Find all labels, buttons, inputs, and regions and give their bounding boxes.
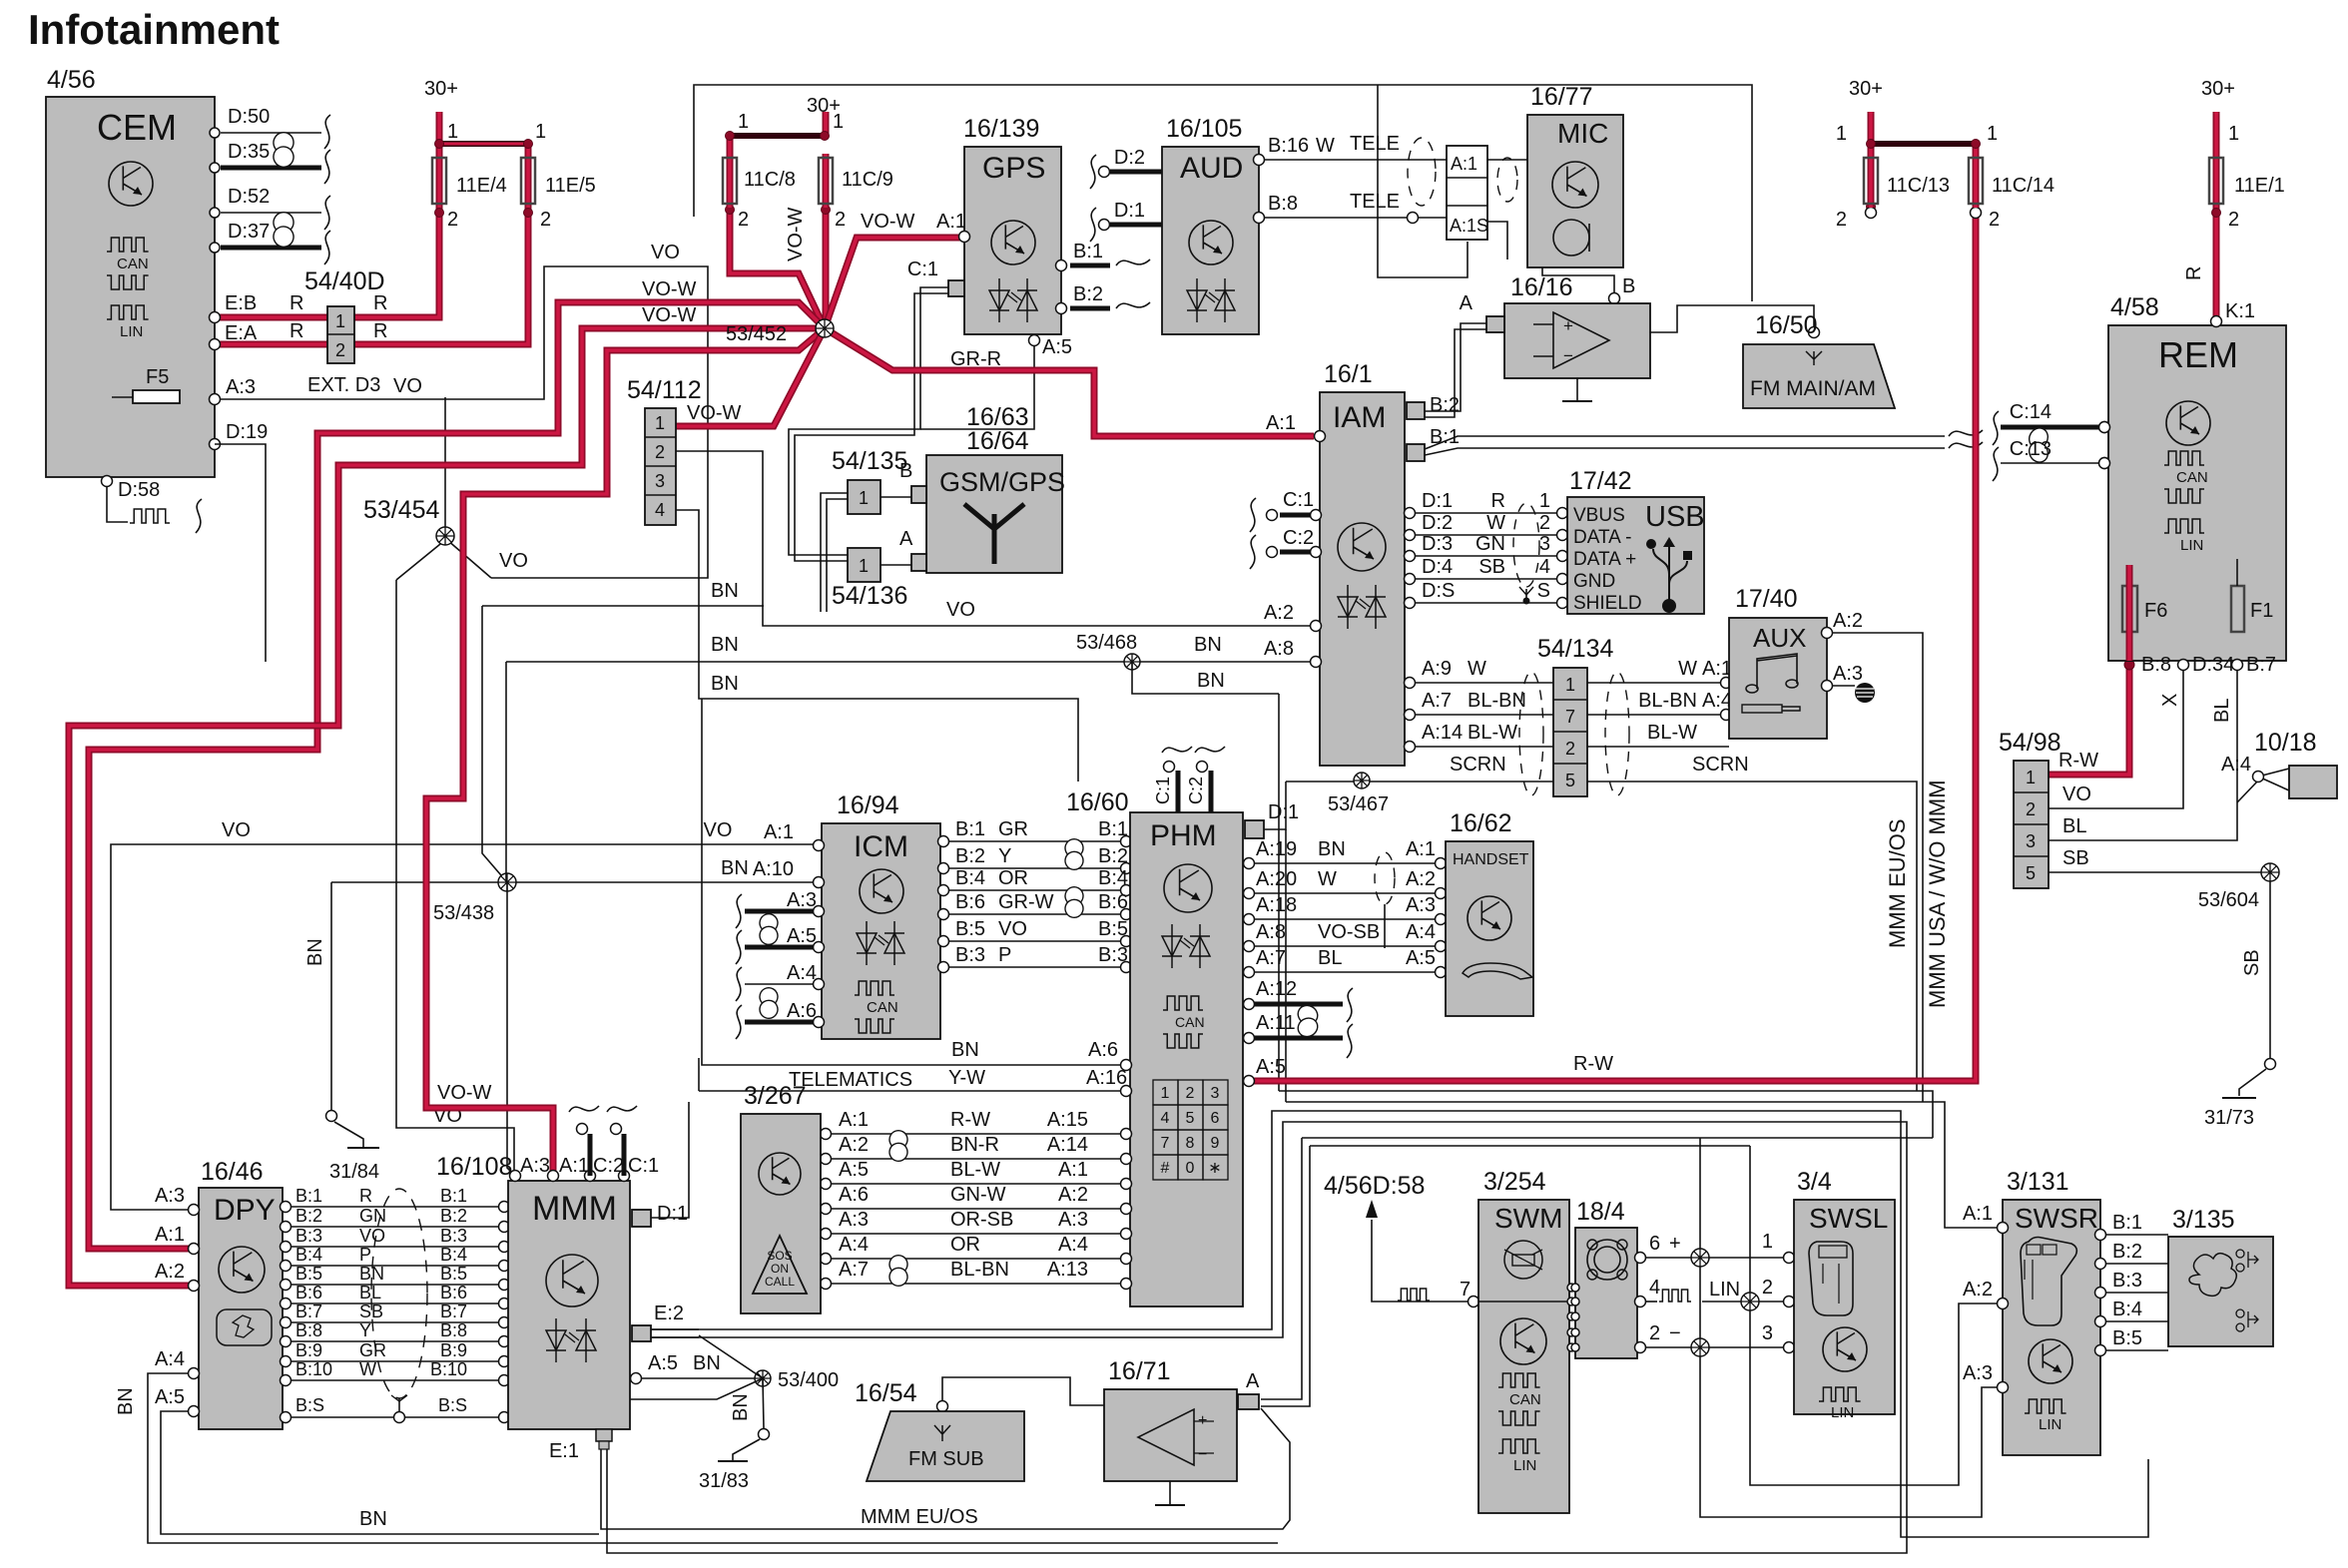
- svg-text:11E/4: 11E/4: [456, 175, 507, 197]
- svg-text:53/468: 53/468: [1076, 632, 1137, 654]
- svg-text:B:2: B:2: [2112, 1241, 2142, 1263]
- svg-text:A:19: A:19: [1256, 838, 1297, 860]
- svg-text:A:6: A:6: [839, 1184, 869, 1206]
- svg-text:BN: BN: [711, 673, 739, 695]
- svg-text:B:1: B:1: [1073, 241, 1103, 262]
- svg-text:A:1: A:1: [1702, 658, 1732, 680]
- svg-text:2: 2: [2228, 209, 2239, 231]
- svg-text:R-W: R-W: [950, 1109, 990, 1131]
- svg-text:A:5: A:5: [155, 1386, 185, 1408]
- svg-text:54/40D: 54/40D: [304, 267, 385, 295]
- svg-text:A:2: A:2: [1833, 610, 1863, 632]
- svg-text:16/50: 16/50: [1755, 311, 1818, 339]
- svg-text:A:14: A:14: [1422, 722, 1463, 744]
- svg-text:GPS: GPS: [982, 152, 1045, 185]
- svg-text:Y-W: Y-W: [948, 1067, 985, 1089]
- svg-text:VO-W: VO-W: [642, 304, 697, 326]
- svg-text:F6: F6: [2144, 600, 2167, 622]
- svg-text:CAN: CAN: [867, 999, 898, 1016]
- svg-text:3: 3: [1211, 1085, 1220, 1102]
- svg-text:VO-W: VO-W: [861, 211, 915, 233]
- svg-text:LIN: LIN: [1831, 1404, 1854, 1421]
- svg-text:A:2: A:2: [1058, 1184, 1088, 1206]
- svg-text:B:3: B:3: [295, 1226, 322, 1246]
- svg-text:GN: GN: [359, 1206, 386, 1226]
- svg-text:DPY: DPY: [214, 1194, 276, 1227]
- svg-text:16/60: 16/60: [1066, 788, 1129, 816]
- svg-text:A:16: A:16: [1086, 1067, 1127, 1089]
- svg-text:B:S: B:S: [438, 1395, 467, 1415]
- svg-text:11C/9: 11C/9: [842, 169, 893, 191]
- svg-text:1: 1: [1161, 1085, 1170, 1102]
- svg-text:31/84: 31/84: [329, 1161, 379, 1183]
- svg-text:3: 3: [655, 471, 665, 491]
- svg-text:VO: VO: [222, 819, 251, 841]
- svg-text:A:4: A:4: [787, 962, 817, 984]
- svg-text:B:4: B:4: [955, 867, 985, 889]
- svg-text:A:1: A:1: [764, 821, 794, 843]
- svg-text:B:1: B:1: [440, 1186, 467, 1206]
- svg-text:BN: BN: [721, 857, 749, 879]
- svg-text:MMM USA / W/O MMM: MMM USA / W/O MMM: [1925, 780, 1950, 1008]
- svg-text:LIN: LIN: [1709, 1279, 1740, 1301]
- svg-text:AUX: AUX: [1753, 623, 1806, 653]
- svg-text:4/58: 4/58: [2110, 293, 2159, 321]
- svg-text:B:1: B:1: [1430, 426, 1460, 448]
- svg-text:54/136: 54/136: [832, 582, 907, 610]
- svg-text:11C/13: 11C/13: [1887, 175, 1950, 197]
- svg-text:VO: VO: [998, 918, 1027, 940]
- svg-text:D:3: D:3: [1422, 533, 1453, 555]
- svg-text:BL: BL: [359, 1283, 381, 1303]
- svg-text:BL-BN: BL-BN: [1467, 690, 1526, 712]
- svg-text:A:3: A:3: [1406, 894, 1436, 916]
- svg-text:LIN: LIN: [120, 323, 143, 340]
- svg-text:1: 1: [447, 121, 458, 143]
- svg-text:R: R: [290, 320, 303, 342]
- svg-text:Y: Y: [359, 1320, 371, 1340]
- svg-text:A:1: A:1: [1266, 412, 1296, 434]
- svg-text:GND: GND: [1573, 571, 1615, 592]
- svg-text:C:13: C:13: [2010, 438, 2052, 460]
- svg-text:A:4: A:4: [1702, 690, 1732, 712]
- svg-text:1: 1: [1565, 675, 1575, 695]
- svg-text:A:7: A:7: [1422, 690, 1452, 712]
- svg-text:11E/1: 11E/1: [2234, 175, 2285, 197]
- svg-text:VO-W: VO-W: [785, 207, 807, 261]
- svg-text:Infotainment: Infotainment: [28, 6, 280, 53]
- svg-text:54/134: 54/134: [1537, 635, 1614, 663]
- svg-text:B:6: B:6: [440, 1283, 467, 1303]
- svg-text:A:3: A:3: [839, 1209, 869, 1231]
- svg-text:CAN: CAN: [1509, 1391, 1541, 1408]
- svg-text:B:4: B:4: [2112, 1299, 2142, 1320]
- svg-text:16/105: 16/105: [1166, 115, 1242, 143]
- svg-text:B: B: [1622, 275, 1635, 297]
- svg-text:CEM: CEM: [97, 107, 177, 148]
- svg-text:A:7: A:7: [1256, 947, 1286, 969]
- svg-text:B:7: B:7: [440, 1302, 467, 1321]
- svg-text:A:1: A:1: [839, 1109, 869, 1131]
- svg-text:R: R: [2183, 266, 2205, 280]
- svg-text:D:52: D:52: [228, 186, 270, 208]
- svg-text:VO-SB: VO-SB: [1318, 921, 1380, 943]
- svg-text:GSM/GPS: GSM/GPS: [939, 467, 1065, 497]
- svg-text:B:8: B:8: [295, 1320, 322, 1340]
- svg-text:E:B: E:B: [225, 292, 257, 314]
- svg-text:W: W: [1467, 658, 1486, 680]
- svg-text:D:1: D:1: [1268, 801, 1299, 823]
- svg-text:1: 1: [655, 413, 665, 433]
- svg-text:BL-BN: BL-BN: [950, 1259, 1009, 1281]
- svg-text:AUD: AUD: [1180, 152, 1243, 185]
- svg-text:BN: BN: [1318, 838, 1346, 860]
- svg-text:5: 5: [1186, 1110, 1195, 1127]
- svg-text:R-W: R-W: [2058, 750, 2098, 772]
- svg-text:OR: OR: [950, 1234, 980, 1256]
- svg-text:R: R: [359, 1186, 372, 1206]
- svg-text:C:1: C:1: [1283, 489, 1314, 511]
- svg-text:LIN: LIN: [1513, 1457, 1536, 1474]
- svg-text:DATA -: DATA -: [1573, 527, 1631, 548]
- svg-text:VBUS: VBUS: [1573, 505, 1625, 526]
- svg-text:4/56D:58: 4/56D:58: [1324, 1172, 1425, 1200]
- svg-text:A:3: A:3: [155, 1185, 185, 1207]
- svg-text:1: 1: [535, 121, 546, 143]
- svg-text:FM MAIN/AM: FM MAIN/AM: [1750, 377, 1876, 400]
- svg-text:A:2: A:2: [155, 1261, 185, 1283]
- svg-text:HANDSET: HANDSET: [1453, 851, 1529, 868]
- svg-text:A:2: A:2: [839, 1134, 869, 1156]
- svg-text:USB: USB: [1645, 501, 1705, 533]
- svg-text:A:1: A:1: [155, 1224, 185, 1246]
- svg-text:A:1: A:1: [559, 1155, 589, 1177]
- svg-text:A: A: [899, 528, 913, 550]
- svg-text:VO: VO: [704, 819, 733, 841]
- svg-text:A: A: [1246, 1370, 1260, 1392]
- svg-text:30+: 30+: [424, 78, 458, 100]
- svg-text:A:3: A:3: [226, 376, 256, 398]
- svg-text:E:1: E:1: [549, 1440, 579, 1462]
- svg-text:MMM EU/OS: MMM EU/OS: [861, 1506, 978, 1528]
- svg-text:A:3: A:3: [1963, 1362, 1993, 1384]
- svg-text:53/400: 53/400: [778, 1369, 839, 1391]
- svg-text:W: W: [1678, 658, 1697, 680]
- svg-text:C:1: C:1: [628, 1155, 659, 1177]
- svg-text:1: 1: [2228, 123, 2239, 145]
- svg-text:16/16: 16/16: [1510, 273, 1573, 301]
- svg-text:R: R: [290, 292, 303, 314]
- svg-text:54/112: 54/112: [627, 376, 702, 404]
- svg-text:BL-W: BL-W: [1647, 722, 1697, 744]
- svg-text:A:9: A:9: [1422, 658, 1452, 680]
- svg-text:0: 0: [1186, 1160, 1195, 1177]
- svg-text:SHIELD: SHIELD: [1573, 593, 1642, 614]
- svg-text:VO: VO: [2062, 784, 2091, 805]
- svg-text:B:5: B:5: [440, 1264, 467, 1284]
- svg-text:A:4: A:4: [1058, 1234, 1088, 1256]
- svg-text:DATA +: DATA +: [1573, 549, 1636, 570]
- svg-text:P: P: [359, 1245, 371, 1265]
- svg-text:B:2: B:2: [1430, 394, 1460, 416]
- svg-text:B:2: B:2: [1098, 845, 1128, 867]
- svg-text:30+: 30+: [1849, 78, 1883, 100]
- svg-text:B:10: B:10: [295, 1359, 332, 1379]
- svg-text:B:4: B:4: [295, 1245, 322, 1265]
- svg-text:B:7: B:7: [295, 1302, 322, 1321]
- svg-text:A:7: A:7: [839, 1259, 869, 1281]
- svg-text:MMM: MMM: [532, 1190, 617, 1228]
- svg-text:W: W: [359, 1359, 376, 1379]
- svg-text:7: 7: [1565, 707, 1575, 727]
- svg-text:W: W: [1316, 135, 1335, 157]
- svg-text:+: +: [1669, 1233, 1681, 1255]
- svg-text:ON: ON: [771, 1262, 789, 1276]
- svg-text:A:2: A:2: [1963, 1279, 1993, 1301]
- svg-text:D:50: D:50: [228, 106, 270, 128]
- svg-text:BN: BN: [304, 938, 326, 966]
- svg-text:17/40: 17/40: [1735, 585, 1798, 613]
- svg-text:VO: VO: [359, 1226, 385, 1246]
- svg-text:A:10: A:10: [753, 858, 794, 880]
- svg-text:A:8: A:8: [1264, 638, 1294, 660]
- svg-text:5: 5: [2026, 863, 2036, 883]
- svg-text:7: 7: [1161, 1135, 1170, 1152]
- svg-text:BL: BL: [2062, 815, 2086, 837]
- svg-text:53/604: 53/604: [2198, 889, 2259, 911]
- svg-text:A:3: A:3: [1058, 1209, 1088, 1231]
- svg-text:A:1: A:1: [1058, 1159, 1088, 1181]
- svg-text:2: 2: [1539, 512, 1550, 534]
- svg-text:D:1: D:1: [1114, 200, 1145, 222]
- svg-text:A:6: A:6: [1088, 1039, 1118, 1061]
- svg-text:4: 4: [1649, 1277, 1660, 1299]
- svg-text:18/4: 18/4: [1576, 1198, 1625, 1226]
- svg-text:B:4: B:4: [440, 1245, 467, 1265]
- svg-text:31/83: 31/83: [699, 1470, 749, 1492]
- svg-text:GN: GN: [1475, 533, 1505, 555]
- svg-text:CALL: CALL: [765, 1275, 795, 1289]
- svg-text:B:1: B:1: [295, 1186, 322, 1206]
- svg-text:BN: BN: [711, 580, 739, 602]
- svg-text:16/108: 16/108: [436, 1153, 512, 1181]
- svg-text:B:3: B:3: [1098, 944, 1128, 966]
- svg-text:MIC: MIC: [1557, 118, 1608, 149]
- svg-text:11C/8: 11C/8: [744, 169, 796, 191]
- svg-text:GR: GR: [359, 1340, 386, 1360]
- svg-text:2: 2: [1649, 1322, 1660, 1344]
- svg-text:2: 2: [1989, 209, 2000, 231]
- svg-text:B:4: B:4: [1098, 867, 1128, 889]
- svg-text:TELE: TELE: [1350, 191, 1400, 213]
- svg-text:16/64: 16/64: [966, 427, 1029, 455]
- svg-text:SWM: SWM: [1494, 1203, 1562, 1234]
- svg-text:8: 8: [1186, 1135, 1195, 1152]
- svg-text:4: 4: [655, 500, 665, 520]
- svg-text:VO: VO: [499, 550, 528, 572]
- svg-text:GR-W: GR-W: [998, 891, 1054, 913]
- svg-text:A:2: A:2: [1406, 868, 1436, 890]
- svg-text:VO-W: VO-W: [642, 278, 697, 300]
- svg-text:A:2: A:2: [1264, 602, 1294, 624]
- svg-text:BL: BL: [1318, 947, 1342, 969]
- svg-text:A:1: A:1: [1451, 154, 1477, 174]
- svg-text:D:2: D:2: [1422, 512, 1453, 534]
- svg-text:16/94: 16/94: [837, 791, 899, 819]
- svg-text:1: 1: [1987, 123, 1998, 145]
- svg-text:B:6: B:6: [1098, 891, 1128, 913]
- svg-text:A:15: A:15: [1047, 1109, 1088, 1131]
- svg-text:A:13: A:13: [1047, 1259, 1088, 1281]
- svg-text:B:3: B:3: [955, 944, 985, 966]
- svg-text:K:1: K:1: [2225, 300, 2255, 322]
- svg-text:30+: 30+: [2201, 78, 2235, 100]
- svg-text:B: B: [899, 460, 912, 482]
- svg-text:16/71: 16/71: [1108, 1357, 1171, 1385]
- svg-text:SB: SB: [1478, 556, 1505, 578]
- svg-text:BN-R: BN-R: [950, 1134, 999, 1156]
- svg-text:A:3: A:3: [1833, 663, 1863, 685]
- svg-text:VO-W: VO-W: [437, 1082, 492, 1104]
- svg-text:REM: REM: [2158, 334, 2238, 375]
- svg-text:B:7: B:7: [2246, 654, 2276, 676]
- svg-text:A:4: A:4: [1406, 921, 1436, 943]
- svg-text:E:A: E:A: [225, 322, 258, 344]
- svg-text:VO-W: VO-W: [687, 402, 742, 424]
- svg-text:F1: F1: [2250, 600, 2273, 622]
- svg-text:3: 3: [1539, 533, 1550, 555]
- svg-text:B:3: B:3: [2112, 1270, 2142, 1292]
- svg-text:W: W: [1318, 868, 1337, 890]
- svg-text:A:1: A:1: [1406, 838, 1436, 860]
- svg-text:C:14: C:14: [2010, 401, 2052, 423]
- svg-text:3/267: 3/267: [744, 1082, 807, 1110]
- svg-text:1: 1: [833, 111, 844, 133]
- svg-text:A:14: A:14: [1047, 1134, 1088, 1156]
- svg-text:6: 6: [1211, 1110, 1220, 1127]
- svg-text:A:11: A:11: [1256, 1012, 1296, 1034]
- svg-text:VO: VO: [946, 599, 975, 621]
- svg-text:−: −: [1563, 346, 1573, 365]
- svg-text:D:4: D:4: [1422, 556, 1453, 578]
- svg-text:C:1: C:1: [907, 259, 938, 280]
- svg-text:C:2: C:2: [1186, 777, 1206, 804]
- svg-text:53/452: 53/452: [726, 323, 787, 345]
- svg-text:10/18: 10/18: [2254, 729, 2317, 757]
- svg-text:2: 2: [1186, 1085, 1195, 1102]
- svg-text:53/438: 53/438: [433, 902, 494, 924]
- svg-text:B:5: B:5: [955, 918, 985, 940]
- svg-text:D:34: D:34: [2192, 654, 2234, 676]
- svg-text:BN: BN: [730, 1393, 752, 1421]
- svg-text:A: A: [1460, 292, 1473, 314]
- svg-text:D:1: D:1: [1422, 490, 1453, 512]
- svg-text:D:S: D:S: [1422, 580, 1455, 602]
- svg-text:2: 2: [655, 442, 665, 462]
- svg-text:B:5: B:5: [2112, 1327, 2142, 1349]
- svg-text:BN: BN: [1194, 634, 1222, 656]
- svg-text:A:3: A:3: [787, 889, 817, 911]
- svg-text:53/467: 53/467: [1328, 793, 1389, 815]
- svg-text:GR: GR: [998, 818, 1028, 840]
- svg-text:GN-W: GN-W: [950, 1184, 1006, 1206]
- svg-text:BL-W: BL-W: [1467, 722, 1517, 744]
- svg-text:A:8: A:8: [1256, 921, 1286, 943]
- svg-text:16/62: 16/62: [1450, 809, 1512, 837]
- svg-text:D:2: D:2: [1114, 147, 1145, 169]
- svg-text:F5: F5: [146, 366, 169, 388]
- svg-text:4/56: 4/56: [47, 66, 96, 94]
- svg-text:BL-BN: BL-BN: [1638, 690, 1697, 712]
- svg-text:BN: BN: [1197, 670, 1225, 692]
- svg-text:B:3: B:3: [440, 1226, 467, 1246]
- svg-text:C:2: C:2: [1283, 527, 1314, 549]
- svg-text:5: 5: [1565, 771, 1575, 790]
- svg-text:D:58: D:58: [118, 479, 160, 501]
- svg-text:A:5: A:5: [1042, 336, 1072, 358]
- svg-text:B:1: B:1: [1098, 818, 1128, 840]
- svg-text:B:5: B:5: [1098, 918, 1128, 940]
- svg-text:B:2: B:2: [295, 1206, 322, 1226]
- svg-text:2: 2: [2026, 799, 2036, 819]
- svg-text:TELE: TELE: [1350, 133, 1400, 155]
- svg-text:BN: BN: [115, 1387, 137, 1415]
- svg-text:2: 2: [335, 340, 345, 360]
- svg-text:D:19: D:19: [226, 421, 268, 443]
- svg-text:1: 1: [335, 311, 345, 331]
- svg-text:R: R: [373, 292, 387, 314]
- svg-text:PHM: PHM: [1150, 819, 1217, 852]
- svg-text:P: P: [998, 944, 1011, 966]
- svg-text:A:5: A:5: [839, 1159, 869, 1181]
- svg-text:D:35: D:35: [228, 141, 270, 163]
- svg-text:B:9: B:9: [295, 1340, 322, 1360]
- svg-text:B:8: B:8: [2141, 654, 2171, 676]
- svg-text:A:1S: A:1S: [1450, 216, 1488, 236]
- svg-text:1: 1: [738, 111, 749, 133]
- svg-text:W: W: [1486, 512, 1505, 534]
- svg-text:BL-W: BL-W: [950, 1159, 1000, 1181]
- svg-text:2: 2: [1836, 209, 1847, 231]
- svg-text:4: 4: [1539, 556, 1550, 578]
- svg-text:1: 1: [1762, 1231, 1773, 1253]
- svg-text:B:16: B:16: [1268, 135, 1309, 157]
- svg-text:ICM: ICM: [854, 830, 908, 863]
- svg-text:B:1: B:1: [955, 818, 985, 840]
- svg-text:BN: BN: [693, 1352, 721, 1374]
- svg-text:D:37: D:37: [228, 221, 270, 243]
- svg-text:VO: VO: [393, 375, 422, 397]
- svg-text:C:1: C:1: [1153, 777, 1173, 804]
- svg-text:11C/14: 11C/14: [1992, 175, 2054, 197]
- svg-text:1: 1: [1836, 123, 1847, 145]
- svg-text:B:2: B:2: [955, 845, 985, 867]
- svg-text:A:3: A:3: [520, 1155, 550, 1177]
- svg-text:LIN: LIN: [2039, 1416, 2061, 1433]
- svg-text:BN: BN: [359, 1508, 387, 1530]
- svg-text:A:1: A:1: [936, 211, 966, 233]
- svg-text:IAM: IAM: [1333, 401, 1386, 434]
- svg-text:SB: SB: [2062, 847, 2089, 869]
- svg-text:16/46: 16/46: [201, 1158, 264, 1186]
- svg-text:17/42: 17/42: [1569, 467, 1632, 495]
- svg-text:11E/5: 11E/5: [545, 175, 596, 197]
- svg-text:R-W: R-W: [1573, 1053, 1613, 1075]
- svg-text:R: R: [1491, 490, 1505, 512]
- svg-text:S: S: [1537, 580, 1550, 602]
- svg-text:VO: VO: [651, 242, 680, 263]
- svg-text:B:5: B:5: [295, 1264, 322, 1284]
